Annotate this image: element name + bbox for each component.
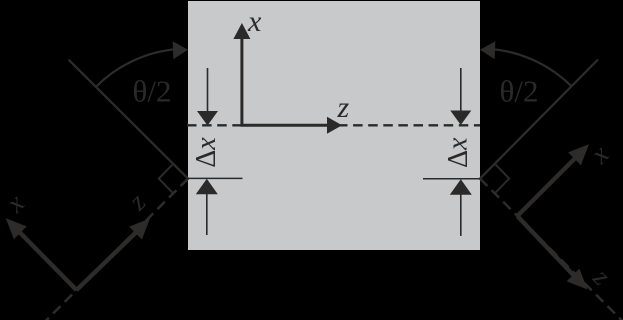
- left down dimension arrow: [207, 68, 209, 113]
- svg-text:z: z: [337, 91, 350, 124]
- main z axis arrowhead: [327, 117, 342, 134]
- exit beam dashed axis (lower-right): [480, 179, 623, 320]
- svg-text:x: x: [247, 5, 262, 38]
- svg-text:Δx: Δx: [191, 137, 222, 168]
- right-angle marker right: [495, 164, 510, 194]
- right down dimension arrow: [460, 68, 462, 113]
- exit wavefront line (upper-right diagonal): [480, 60, 598, 179]
- right frame x axis: [517, 155, 578, 216]
- incident beam dashed axis (lower-left): [41, 179, 188, 320]
- theta/2 arc left: [96, 49, 183, 87]
- theta/2 arc right: [485, 49, 572, 87]
- theta/2 arc right arrowhead: [480, 41, 495, 59]
- right frame z axis: [517, 216, 577, 279]
- svg-text:θ/2: θ/2: [500, 74, 539, 109]
- theta/2 arc left arrowhead: [173, 41, 188, 59]
- main x axis: [240, 32, 243, 127]
- right up dimension arrow: [460, 193, 462, 236]
- slab (gray dispersive medium): [188, 1, 480, 250]
- incident wavefront line (upper-left diagonal): [69, 60, 188, 179]
- svg-text:Δx: Δx: [443, 137, 474, 168]
- lower-left frame z axis: [77, 229, 140, 290]
- main x axis arrowhead: [233, 23, 250, 39]
- right-angle marker left: [159, 164, 174, 194]
- left up dimension arrow: [206, 193, 208, 235]
- lower-left frame x axis: [16, 229, 76, 290]
- beam axis dashed centerline: [187, 124, 480, 126]
- main z axis: [241, 124, 331, 127]
- svg-text:θ/2: θ/2: [133, 74, 172, 109]
- right displaced-beam tick line: [423, 178, 480, 180]
- left displaced-beam tick line: [188, 177, 243, 179]
